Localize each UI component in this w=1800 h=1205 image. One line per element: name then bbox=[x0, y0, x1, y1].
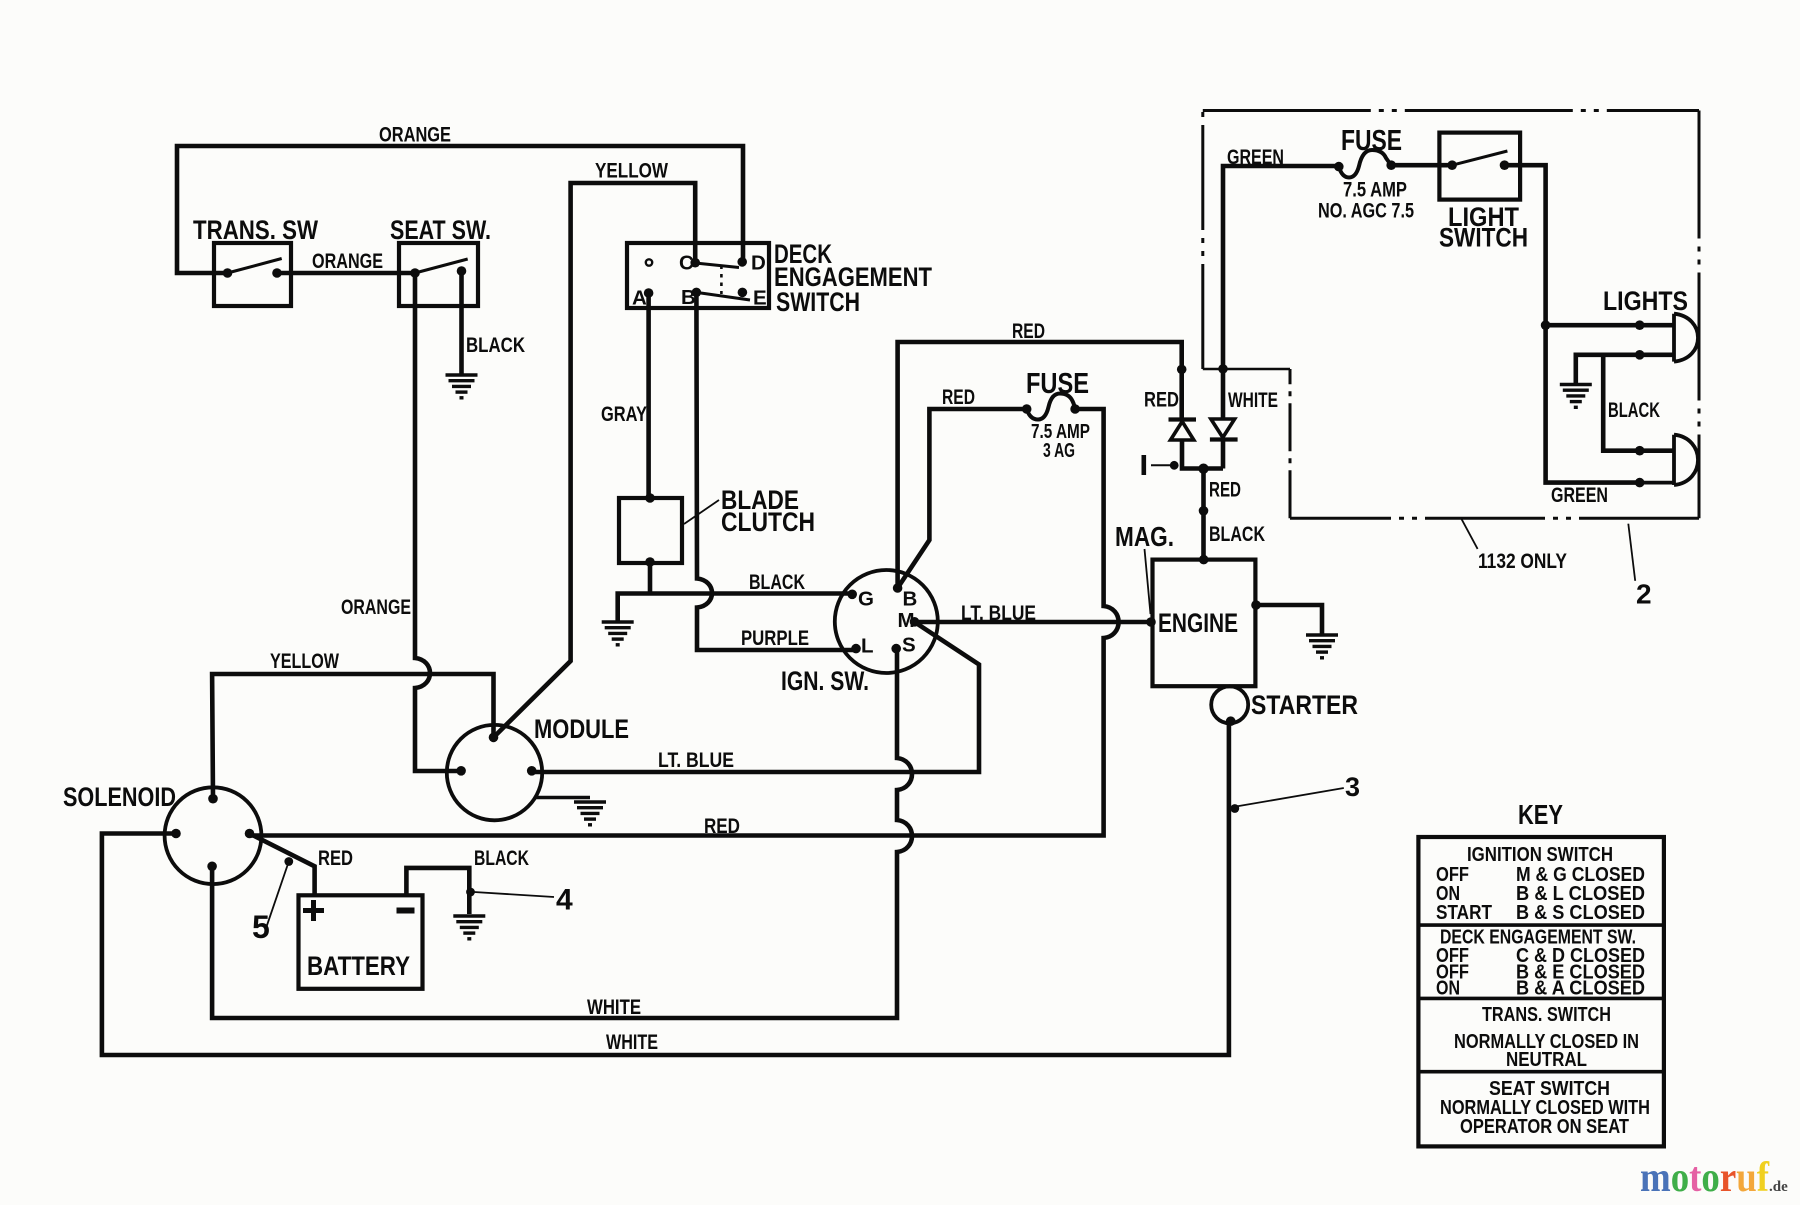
ground (blade clutch / black wire) bbox=[602, 622, 634, 645]
trans. sw right contact bbox=[272, 268, 282, 278]
wire RED top: ign sw B up and across to red diode bbox=[898, 342, 1182, 588]
ENGINE box bbox=[1153, 560, 1256, 687]
diode D1 RED: cathode bar bbox=[1169, 417, 1197, 421]
wire RED/BLACK: diode junction down to engine magneto bbox=[1201, 469, 1206, 560]
svg-text:1132 ONLY: 1132 ONLY bbox=[1478, 550, 1567, 573]
svg-text:BLACK: BLACK bbox=[466, 334, 525, 357]
svg-text:LT. BLUE: LT. BLUE bbox=[961, 602, 1036, 625]
svg-text:WHITE: WHITE bbox=[587, 996, 641, 1019]
svg-text:YELLOW: YELLOW bbox=[270, 650, 339, 673]
svg-text:RED: RED bbox=[704, 815, 740, 838]
node 5 leader line bbox=[266, 862, 289, 928]
junction dot where white wire crosses 1132 border bbox=[1218, 364, 1228, 374]
key table separator 1 bbox=[1418, 923, 1664, 927]
blade clutch bottom terminal bbox=[645, 557, 655, 567]
svg-text:E: E bbox=[753, 287, 767, 310]
svg-text:BLACK: BLACK bbox=[749, 571, 805, 594]
svg-text:OPERATOR ON SEAT: OPERATOR ON SEAT bbox=[1460, 1115, 1629, 1138]
fuse F1 left terminal dot bbox=[1022, 404, 1032, 414]
label LIGHT SWITCH bbox=[1439, 202, 1528, 253]
SOLENOID circle bbox=[165, 787, 262, 884]
lamp 1 symbol bbox=[1674, 314, 1698, 362]
svg-text:ORANGE: ORANGE bbox=[312, 250, 383, 273]
deck switch terminal C dot bbox=[690, 258, 700, 268]
svg-text:B: B bbox=[903, 588, 918, 611]
deck switch terminal D dot bbox=[737, 257, 747, 267]
node 4 leader line bbox=[474, 892, 554, 897]
wire: engine right to ground bbox=[1256, 605, 1322, 634]
solenoid bottom terminal dot bbox=[207, 862, 217, 872]
svg-text:.de: .de bbox=[1769, 1179, 1788, 1195]
svg-text:D: D bbox=[751, 252, 766, 275]
deck switch terminal A dot bbox=[644, 288, 654, 298]
deck engagement switch box bbox=[627, 243, 769, 308]
svg-text:B & S CLOSED: B & S CLOSED bbox=[1516, 901, 1645, 924]
node 1 leader dot bbox=[1170, 461, 1179, 470]
lamp 1 terminal dot (bottom) bbox=[1635, 350, 1645, 360]
wire BLACK: lamp 1 return to ground and lamp 2 bbox=[1576, 355, 1674, 383]
svg-text:TRANS. SWITCH: TRANS. SWITCH bbox=[1482, 1003, 1611, 1026]
svg-text:MAG.: MAG. bbox=[1115, 521, 1174, 552]
wire PURPLE: deck switch B down to ign sw L (hop over black wire) bbox=[696, 292, 856, 650]
fuse F2 element bbox=[1339, 150, 1391, 178]
deck switch lever B-E bbox=[696, 292, 750, 300]
trans. sw lever bbox=[228, 259, 282, 274]
wire GRAY: deck switch A down to blade clutch bbox=[646, 293, 651, 498]
node 3 leader dot bbox=[1230, 804, 1239, 813]
light switch right contact bbox=[1500, 160, 1510, 170]
ign sw terminal G dot bbox=[847, 590, 857, 600]
svg-text:C: C bbox=[679, 252, 694, 275]
svg-text:RED: RED bbox=[318, 847, 353, 870]
motoruf.de watermark logo bbox=[1640, 1155, 1788, 1201]
svg-text:3 AG: 3 AG bbox=[1043, 440, 1075, 462]
svg-text:L: L bbox=[861, 635, 874, 658]
module left terminal dot bbox=[456, 766, 466, 776]
ground (seat switch) bbox=[446, 375, 478, 398]
node 3 leader line bbox=[1236, 788, 1344, 807]
fuse F2 left terminal dot bbox=[1334, 162, 1344, 172]
wire RED: ign sw B diagonal up to fuse bbox=[898, 409, 1027, 588]
svg-text:2: 2 bbox=[1636, 579, 1652, 610]
seat sw right contact bbox=[457, 266, 467, 276]
junction dot on red diode feed bbox=[1177, 365, 1187, 375]
svg-text:LT. BLUE: LT. BLUE bbox=[658, 749, 734, 772]
blade clutch top terminal bbox=[645, 493, 655, 503]
wire: light switch branch to lamp 1 bbox=[1546, 323, 1674, 328]
junction dot red/black transition bbox=[1199, 506, 1209, 516]
svg-text:B: B bbox=[681, 286, 696, 309]
lamp 1 terminal dot (top) bbox=[1635, 320, 1645, 330]
diode D1 RED: triangle bbox=[1171, 422, 1194, 441]
wire YELLOW top: module top terminal up and across to deck switch C bbox=[494, 183, 696, 737]
svg-text:BLACK: BLACK bbox=[474, 847, 529, 870]
svg-text:START: START bbox=[1436, 901, 1492, 924]
svg-text:BATTERY: BATTERY bbox=[307, 951, 410, 981]
svg-text:RED: RED bbox=[942, 386, 975, 409]
1132-only phantom border notch horizontal bbox=[1203, 368, 1290, 371]
svg-text:MODULE: MODULE bbox=[534, 714, 629, 744]
svg-text:FUSE: FUSE bbox=[1341, 125, 1402, 157]
svg-text:WHITE: WHITE bbox=[606, 1031, 658, 1054]
wire ORANGE top: trans. sw left contact up and across to deck switch D bbox=[177, 146, 743, 273]
engine left terminal dot bbox=[1146, 617, 1156, 627]
key table deck engagement section text bbox=[1436, 926, 1645, 1000]
svg-text:S: S bbox=[902, 634, 916, 657]
svg-text:CLUTCH: CLUTCH bbox=[721, 507, 815, 537]
key table separator 3 bbox=[1418, 1070, 1664, 1074]
svg-text:RED: RED bbox=[1209, 479, 1241, 502]
light switch lever bbox=[1452, 151, 1507, 165]
svg-text:NEUTRAL: NEUTRAL bbox=[1506, 1048, 1587, 1071]
diode D2 WHITE: triangle bbox=[1211, 419, 1235, 438]
1132 ONLY leader line bbox=[1462, 519, 1478, 549]
solenoid left terminal dot bbox=[171, 829, 181, 839]
label DECK ENGAGEMENT SWITCH bbox=[774, 239, 932, 317]
1132-only phantom border right edge bbox=[1698, 111, 1701, 519]
wire: diode D1 anode down to junction bar bbox=[1182, 440, 1223, 469]
wire BLACK: ground up and across to ign sw G bbox=[618, 594, 853, 622]
ign sw terminal L dot bbox=[851, 644, 861, 654]
deck switch gang link (dashed) bbox=[720, 266, 723, 295]
deck switch spare terminal (open circle) bbox=[646, 259, 652, 265]
svg-text:PURPLE: PURPLE bbox=[741, 627, 809, 650]
svg-text:STARTER: STARTER bbox=[1251, 690, 1358, 720]
trans. sw left contact bbox=[223, 268, 233, 278]
node 1 leader line bbox=[1151, 464, 1170, 466]
ground (engine) bbox=[1306, 635, 1338, 658]
lamp 2 symbol bbox=[1640, 435, 1698, 485]
wire ORANGE: seat sw left contact down to module left terminal (hop over yellow wire) bbox=[415, 273, 461, 771]
wire RED: fuse right down to solenoid red wire (hop over lt. blue) bbox=[250, 409, 1119, 836]
switch TRANS. SW box bbox=[214, 243, 291, 306]
svg-text:M: M bbox=[898, 609, 915, 632]
svg-text:3: 3 bbox=[1345, 772, 1360, 802]
svg-text:SWITCH: SWITCH bbox=[1439, 223, 1528, 253]
svg-text:SWITCH: SWITCH bbox=[776, 287, 860, 317]
node 1 marker glyph bbox=[1142, 455, 1147, 475]
svg-text:ENGINE: ENGINE bbox=[1158, 608, 1238, 638]
diode D2 WHITE: cathode bar bbox=[1210, 437, 1238, 441]
wire LT. BLUE: ign sw M diagonal down and across to module right terminal bbox=[532, 622, 979, 772]
ground (lights) bbox=[1560, 385, 1592, 408]
wire WHITE: solenoid left terminal around bottom to starter bbox=[102, 721, 1229, 1055]
junction dot at lights branch bbox=[1541, 320, 1551, 330]
ign sw terminal M dot bbox=[910, 617, 920, 627]
svg-text:YELLOW: YELLOW bbox=[595, 160, 668, 183]
svg-text:ON: ON bbox=[1436, 977, 1460, 1000]
svg-text:FUSE: FUSE bbox=[1026, 368, 1089, 400]
svg-text:NO. AGC 7.5: NO. AGC 7.5 bbox=[1318, 200, 1414, 223]
svg-text:5: 5 bbox=[252, 909, 270, 945]
wire WHITE: solenoid bottom terminal across and up to ign sw S (hops over lt. blue and red) bbox=[212, 649, 912, 1018]
battery plus symbol bbox=[303, 900, 324, 921]
svg-text:RED: RED bbox=[1012, 320, 1045, 343]
lamp 2 terminal dot (top) bbox=[1635, 446, 1645, 456]
svg-text:RED: RED bbox=[1144, 389, 1179, 412]
svg-text:TRANS. SW: TRANS. SW bbox=[193, 215, 318, 245]
key table seat switch section text bbox=[1440, 1077, 1650, 1138]
svg-text:ORANGE: ORANGE bbox=[341, 596, 411, 619]
svg-text:ORANGE: ORANGE bbox=[379, 124, 451, 147]
svg-text:WHITE: WHITE bbox=[1228, 389, 1278, 412]
key table trans switch section text bbox=[1454, 1003, 1639, 1071]
svg-text:GREEN: GREEN bbox=[1551, 484, 1608, 507]
MAG. leader line bbox=[1145, 549, 1151, 614]
battery minus symbol bbox=[397, 908, 415, 914]
LIGHT SWITCH box bbox=[1439, 133, 1520, 200]
module right terminal dot bbox=[527, 766, 537, 776]
key table separator 2 bbox=[1418, 997, 1664, 1001]
svg-text:GRAY: GRAY bbox=[601, 403, 647, 426]
wire: diode D2 down to junction bar bbox=[1221, 440, 1226, 469]
engine right terminal dot bbox=[1251, 600, 1261, 610]
switch SEAT SW. box bbox=[399, 243, 478, 306]
deck switch lever C-D bbox=[695, 263, 739, 268]
1132-only phantom border top edge bbox=[1203, 109, 1699, 112]
starter bottom terminal dot bbox=[1226, 716, 1236, 726]
svg-text:IGN. SW.: IGN. SW. bbox=[781, 666, 869, 696]
ign sw terminal B dot bbox=[893, 583, 903, 593]
wire YELLOW: solenoid top terminal up and across to module top bbox=[212, 674, 493, 799]
svg-text:SOLENOID: SOLENOID bbox=[63, 782, 176, 812]
blade clutch box bbox=[619, 498, 682, 563]
ignition switch circle bbox=[835, 570, 938, 673]
svg-text:7.5 AMP: 7.5 AMP bbox=[1343, 179, 1407, 202]
svg-text:BLACK: BLACK bbox=[1209, 523, 1265, 546]
wire WHITE: green corner down to diode D2 bbox=[1223, 166, 1339, 418]
blade clutch leader line bbox=[684, 500, 719, 524]
key table ignition switch section text bbox=[1436, 843, 1645, 924]
seat sw lever bbox=[415, 259, 468, 273]
wire: blade clutch bottom to black wire junction bbox=[648, 562, 653, 594]
BATTERY box bbox=[299, 895, 423, 989]
fuse F1 7.5 AMP 3 AG element bbox=[1027, 394, 1075, 420]
svg-text:SEAT SW.: SEAT SW. bbox=[390, 215, 491, 245]
lamp 2 terminal dot (bottom) bbox=[1635, 478, 1645, 488]
svg-text:A: A bbox=[632, 287, 647, 310]
engine terminal dot (magneto feed) bbox=[1199, 555, 1209, 565]
junction dot below diodes bbox=[1198, 464, 1208, 474]
svg-text:KEY: KEY bbox=[1518, 799, 1563, 830]
svg-text:BLACK: BLACK bbox=[1608, 399, 1660, 422]
ign sw terminal S dot bbox=[891, 644, 901, 654]
deck switch terminal B dot bbox=[692, 288, 702, 298]
STARTER circle bbox=[1211, 686, 1248, 723]
fuse F1 right terminal dot bbox=[1070, 404, 1080, 414]
svg-text:motoruf: motoruf bbox=[1640, 1155, 1770, 1201]
svg-text:G: G bbox=[858, 588, 874, 611]
wire ORANGE: trans. sw to seat sw bbox=[277, 271, 415, 276]
1132-only phantom border left edge bbox=[1201, 111, 1204, 370]
wire: module case to ground bbox=[536, 796, 590, 800]
1132-only phantom border notch vertical bbox=[1289, 369, 1292, 518]
key table outer box bbox=[1418, 837, 1664, 1146]
svg-text:B & A CLOSED: B & A CLOSED bbox=[1516, 977, 1645, 1000]
node 5 leader dot bbox=[284, 857, 293, 866]
wire RED: solenoid right terminal diagonal down to battery positive bbox=[250, 834, 315, 896]
svg-text:GREEN: GREEN bbox=[1227, 146, 1284, 169]
wire BLACK: battery negative to ground bbox=[406, 868, 469, 914]
solenoid top terminal dot bbox=[208, 794, 218, 804]
wire GREEN: to lights fuse bbox=[1391, 165, 1640, 482]
1132-only phantom border bottom edge bbox=[1290, 517, 1699, 520]
wire BLACK: seat sw right contact to ground bbox=[459, 271, 464, 374]
seat sw left contact bbox=[410, 268, 420, 278]
fuse F2 right terminal dot bbox=[1386, 160, 1396, 170]
module top terminal dot bbox=[489, 733, 499, 743]
wire BLACK: lamp 1 to lamp 2 bbox=[1603, 355, 1674, 451]
solenoid right terminal dot bbox=[245, 829, 255, 839]
MODULE circle bbox=[447, 725, 542, 820]
light switch left contact bbox=[1447, 160, 1457, 170]
deck switch terminal E dot bbox=[738, 288, 748, 298]
ground (module) bbox=[574, 802, 606, 825]
svg-text:4: 4 bbox=[556, 884, 573, 917]
ground (battery) bbox=[453, 916, 485, 939]
node 2 leader line bbox=[1628, 524, 1635, 581]
label BLADE CLUTCH bbox=[721, 485, 815, 537]
svg-text:LIGHTS: LIGHTS bbox=[1603, 286, 1688, 316]
node 4 leader dot bbox=[466, 888, 475, 897]
wire LT. BLUE: ign sw M to engine bbox=[915, 620, 1153, 625]
